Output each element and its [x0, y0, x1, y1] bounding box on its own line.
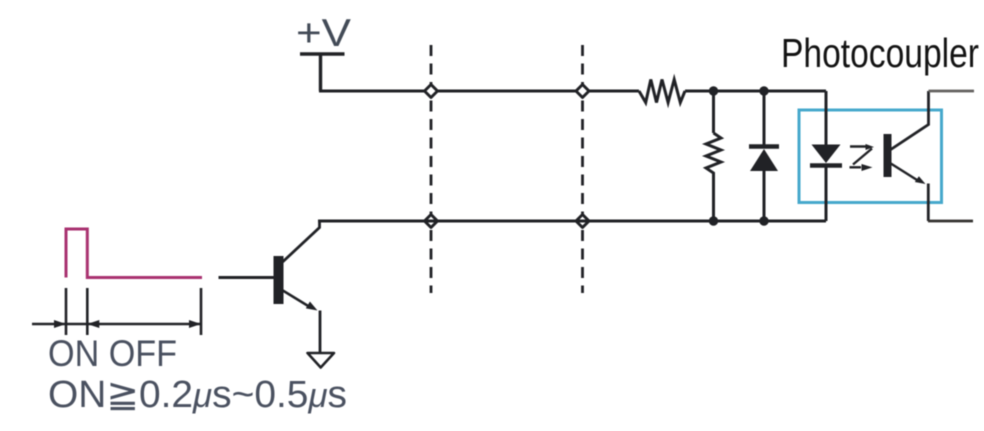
junction bottom at D1 — [759, 216, 768, 225]
diode D1 cathode bar — [749, 144, 779, 149]
pulse waveform — [66, 229, 202, 278]
output wire collector (gray) — [929, 90, 975, 93]
photocoupler LED triangle — [812, 145, 841, 164]
transistor Q1 collector — [282, 221, 320, 263]
node pin top-right — [576, 85, 589, 98]
+V power rail symbol — [300, 54, 345, 91]
junction top at R2 — [709, 86, 718, 95]
dimension tick 3 — [200, 288, 203, 335]
resistor R2 shunt zigzag — [706, 133, 721, 175]
photocoupler blue box — [799, 110, 942, 203]
transistor Q1 base wire — [219, 276, 274, 279]
dimension line — [32, 323, 201, 326]
phototransistor base bar — [884, 134, 892, 177]
dimension tick 2 — [86, 288, 89, 335]
transistor Q1 base bar — [274, 256, 284, 304]
resistor R2 shunt wires — [712, 91, 715, 221]
diode D1 triangle — [750, 149, 778, 171]
phototransistor emitter arrowhead — [915, 176, 926, 184]
connector boundary dashed line right — [581, 45, 584, 293]
photocoupler LED cathode bar — [810, 163, 842, 168]
output wire emitter — [928, 220, 973, 223]
wire top rail — [319, 90, 639, 93]
diode D1 wires — [763, 91, 766, 221]
phototransistor emitter — [890, 163, 917, 180]
node pin bottom-left — [425, 215, 438, 228]
light arrow diagonal — [853, 149, 872, 165]
transistor Q1 emitter arrowhead — [306, 302, 318, 311]
node pin bottom-right — [576, 215, 589, 228]
ground symbol — [308, 353, 335, 368]
photocoupler LED wires — [825, 91, 828, 221]
dimension tick 1 — [65, 288, 68, 335]
transistor Q1 emitter wire down — [319, 311, 322, 354]
transistor Q1 emitter — [282, 290, 309, 307]
svg-text:ON OFF: ON OFF — [48, 333, 177, 374]
phototransistor collector — [890, 91, 929, 150]
light arrow top — [850, 145, 867, 147]
dimension arrowhead into tick1 — [54, 320, 66, 328]
resistor R1 series — [639, 80, 685, 103]
svg-text:Photocoupler: Photocoupler — [781, 30, 979, 76]
dimension arrowhead into tick3 — [189, 320, 201, 328]
junction top at D1 — [759, 86, 768, 95]
phototransistor emitter wire down — [927, 184, 930, 222]
svg-text:+V: +V — [296, 12, 351, 55]
node pin top-left — [425, 85, 438, 98]
wire bottom rail — [318, 220, 826, 223]
wire top rail right of resistor — [685, 90, 826, 93]
light arrow bottom — [850, 166, 862, 168]
junction bottom at R2 — [709, 216, 718, 225]
svg-text:ON≧0.2μs~0.5μs: ON≧0.2μs~0.5μs — [48, 374, 347, 416]
dimension arrowhead from tick2 — [87, 320, 99, 328]
connector boundary dashed line left — [430, 45, 433, 293]
